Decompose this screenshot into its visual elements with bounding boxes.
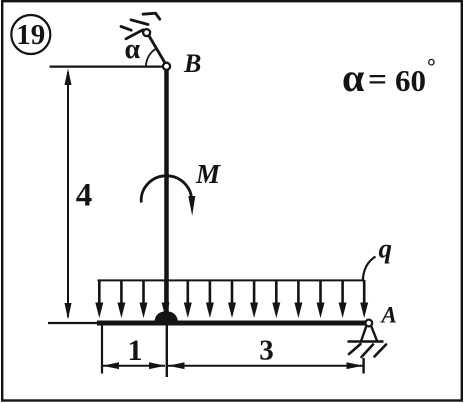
- svg-text:1: 1: [128, 334, 143, 367]
- vertical dimension line for 4: [67, 72, 69, 317]
- distributed load top line: [98, 279, 365, 281]
- rod extension below beam (dimension reference): [166, 325, 168, 377]
- wall pin (upper hinge): [143, 29, 150, 36]
- svg-text:M: M: [195, 159, 221, 189]
- dimension arrowhead down: [65, 303, 72, 320]
- label alpha = 60 deg: [342, 54, 436, 101]
- pin at B: [163, 63, 170, 70]
- svg-text:α: α: [342, 55, 364, 100]
- problem number circle 19: [11, 15, 50, 54]
- pin at A: [365, 320, 372, 327]
- moment arrowhead: [188, 196, 195, 216]
- angle arc at B: [146, 49, 156, 66]
- extension line at load start: [101, 324, 103, 374]
- link rod from wall pin to B: [147, 33, 167, 66]
- svg-text:°: °: [427, 54, 436, 79]
- svg-text:B: B: [183, 49, 201, 78]
- support triangle at A: [361, 326, 377, 341]
- distributed load arrows: [95, 280, 368, 318]
- dimension line 1: [103, 365, 165, 367]
- svg-text:60: 60: [395, 63, 426, 98]
- support base line at A: [348, 340, 384, 342]
- extension tick at A: [362, 358, 364, 374]
- horizontal reference line at B level: [50, 65, 163, 67]
- moment M arc: [141, 176, 191, 203]
- dimension arrowhead up: [65, 69, 72, 86]
- top support hatching (fixed surface): [121, 13, 160, 39]
- svg-text:=: =: [368, 61, 387, 97]
- svg-text:19: 19: [16, 19, 45, 51]
- vertical rod from B to beam: [164, 68, 169, 325]
- support hatching at A: [349, 344, 386, 357]
- leader line from q to load line: [363, 257, 376, 281]
- svg-text:A: A: [380, 303, 397, 328]
- thin baseline left of beam: [48, 322, 100, 324]
- weld blob at rod-beam junction: [154, 311, 178, 322]
- dimension line 3: [168, 365, 363, 367]
- svg-text:4: 4: [76, 178, 93, 214]
- svg-text:α: α: [125, 34, 141, 65]
- main horizontal beam: [97, 321, 366, 326]
- svg-text:q: q: [379, 234, 393, 264]
- svg-text:3: 3: [259, 335, 274, 367]
